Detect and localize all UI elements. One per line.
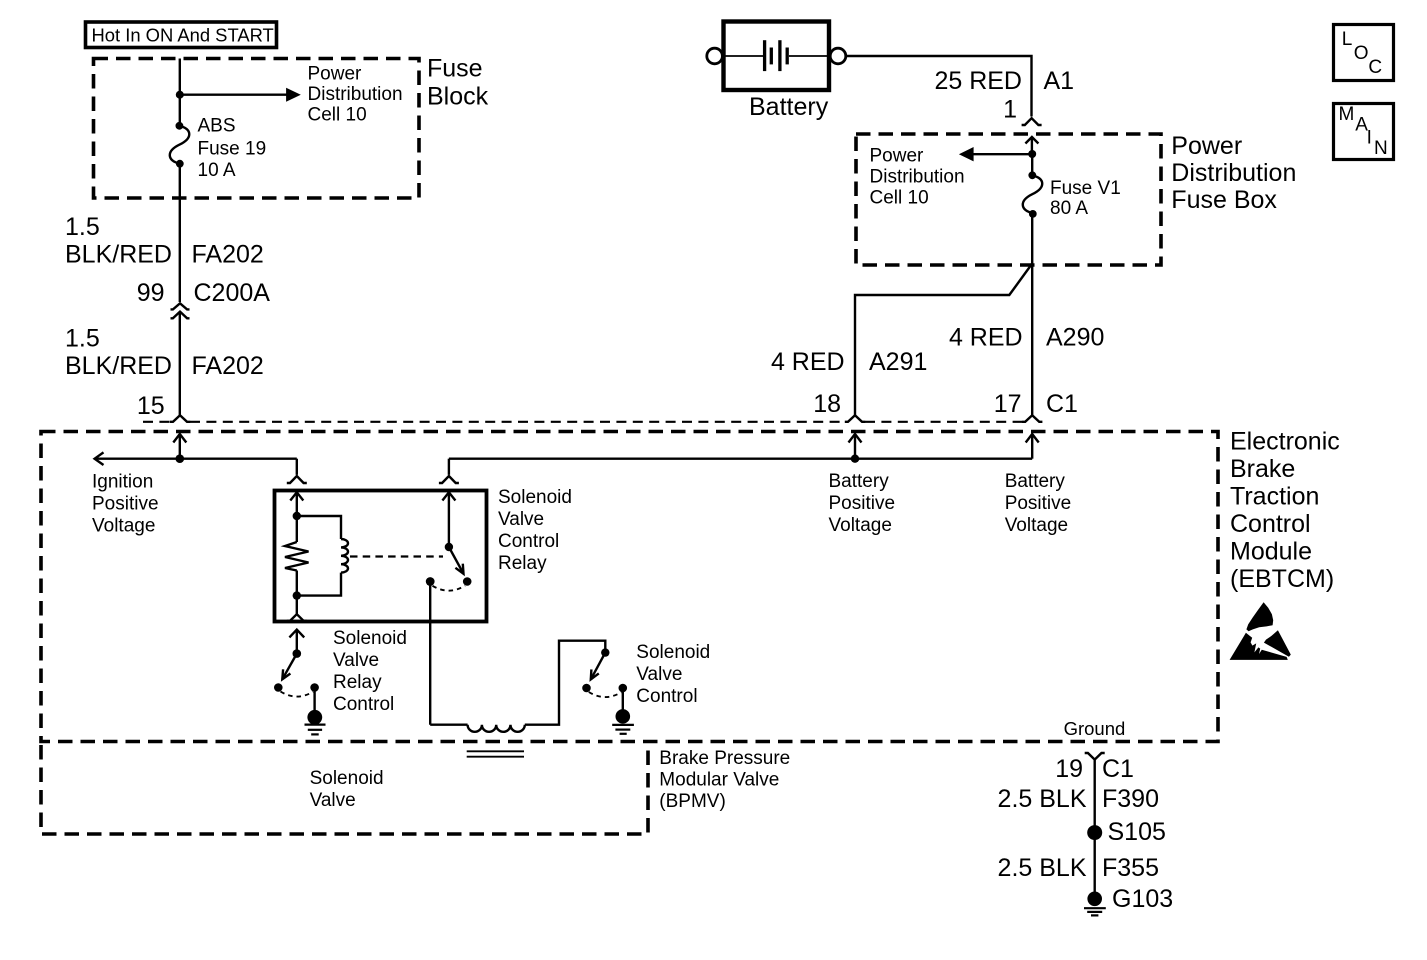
relay switch contacts — [426, 577, 435, 586]
svg-text:Electronic: Electronic — [1230, 428, 1340, 456]
label box "Hot In ON And START" — [86, 22, 277, 48]
svg-text:18: 18 — [813, 390, 841, 418]
svg-text:Fuse Box: Fuse Box — [1171, 186, 1277, 214]
svg-text:Solenoid: Solenoid — [333, 628, 407, 649]
wire junction to fuse V1 — [1031, 154, 1033, 175]
svg-text:Fuse 19: Fuse 19 — [198, 139, 267, 160]
wire pin 19 to G103 — [1093, 760, 1095, 893]
svg-text:Voltage: Voltage — [92, 516, 155, 537]
svg-text:2.5 BLK: 2.5 BLK — [998, 785, 1087, 813]
label Electronic Brake Traction Control Module (EBTCM) — [1230, 428, 1340, 594]
relay switch pivot — [445, 543, 453, 551]
svg-text:Control: Control — [1230, 510, 1311, 538]
svg-text:4 RED: 4 RED — [771, 348, 845, 376]
connector C200A symbol (double chevron), pin 99 — [171, 303, 190, 318]
solenoid valve plates (BPMV) — [467, 751, 524, 756]
wire relay coil to box bottom, chevron — [287, 596, 307, 621]
pin 17 entry arrow inside EBTCM — [1026, 434, 1039, 459]
resistor (relay) — [285, 516, 309, 596]
svg-text:Voltage: Voltage — [829, 515, 892, 536]
wire label 1.5 BLK/RED FA202 (upper) — [65, 213, 264, 269]
node junction pin 18 stem — [851, 455, 859, 463]
ground symbol (internal, SV control) — [612, 688, 634, 734]
svg-text:(BPMV): (BPMV) — [659, 791, 726, 812]
pin 19 connector chevron (ground output) — [1085, 753, 1105, 760]
svg-text:Positive: Positive — [829, 493, 896, 514]
wire C200A to pin 15 — [179, 312, 181, 416]
label Solenoid Valve (BPMV) — [310, 768, 384, 811]
svg-text:Fuse: Fuse — [427, 55, 483, 83]
relay node bottom — [293, 591, 301, 599]
svg-text:Valve: Valve — [636, 664, 682, 685]
fuse block dashed box — [94, 59, 420, 199]
svg-text:Hot In ON And START: Hot In ON And START — [92, 25, 274, 46]
label Power Distribution Fuse Box — [1171, 132, 1296, 214]
svg-text:Ground: Ground — [1064, 718, 1126, 739]
svg-text:Distribution: Distribution — [1171, 159, 1296, 187]
pin 17 connector chevron — [1022, 415, 1042, 422]
label Solenoid Valve Relay Control — [333, 628, 407, 715]
splice wire to pin 18 (A291 branch) — [855, 264, 1032, 416]
svg-text:(EBTCM): (EBTCM) — [1230, 565, 1334, 593]
svg-text:Brake Pressure: Brake Pressure — [659, 748, 790, 769]
svg-text:Ignition: Ignition — [92, 472, 153, 493]
svg-text:Relay: Relay — [498, 553, 547, 574]
svg-text:Control: Control — [498, 531, 559, 552]
svg-text:BLK/RED: BLK/RED — [65, 352, 172, 380]
label Brake Pressure Modular Valve (BPMV) — [659, 748, 790, 812]
relay coil entry arrow — [290, 492, 303, 516]
BPMV dashed box — [41, 745, 648, 834]
svg-text:80 A: 80 A — [1050, 198, 1088, 219]
switch SV relay control: pivot — [293, 649, 302, 658]
MAIN reference box — [1334, 104, 1394, 160]
pin 15 connector chevron — [170, 415, 190, 422]
svg-text:Power: Power — [308, 64, 363, 85]
pin 18 connector chevron — [845, 415, 865, 422]
svg-text:F390: F390 — [1102, 785, 1159, 813]
svg-text:Power: Power — [870, 146, 925, 167]
svg-text:F355: F355 — [1102, 854, 1159, 882]
svg-text:15: 15 — [137, 392, 165, 420]
label ABS Fuse 19 10 A — [198, 116, 267, 182]
svg-text:4 RED: 4 RED — [949, 324, 1023, 352]
battery bus wire (pins 18/17) — [449, 458, 1032, 460]
svg-text:A291: A291 — [869, 348, 927, 376]
svg-text:A290: A290 — [1046, 324, 1104, 352]
label Power Distribution Cell 10 (fuse block) — [308, 64, 403, 126]
svg-text:Distribution: Distribution — [308, 84, 403, 105]
svg-text:Solenoid: Solenoid — [310, 768, 384, 789]
svg-text:Power: Power — [1171, 132, 1242, 160]
wire below relay box to switch pivot, entry arrow — [289, 630, 304, 654]
relay switch entry arrow — [442, 492, 455, 547]
svg-text:Fuse V1: Fuse V1 — [1050, 178, 1121, 199]
wire down to relay coil input, chevron — [287, 459, 307, 483]
svg-text:C1: C1 — [1102, 755, 1134, 783]
svg-text:L: L — [1342, 29, 1353, 50]
svg-text:Battery: Battery — [749, 93, 829, 121]
wire label 1.5 BLK/RED FA202 (lower) — [65, 325, 264, 381]
label Battery Positive Voltage (pin 17) — [1005, 471, 1072, 536]
ground symbol (internal, SV relay control) — [305, 688, 326, 735]
switch SV control: travel arc — [589, 692, 622, 697]
LOC reference box — [1334, 25, 1394, 81]
power distribution fuse box dashed box — [856, 134, 1161, 265]
svg-text:10 A: 10 A — [198, 160, 236, 181]
EBTCM module dashed box — [41, 432, 1218, 742]
svg-text:Valve: Valve — [310, 790, 356, 811]
svg-text:C: C — [1368, 57, 1382, 78]
svg-text:2.5 BLK: 2.5 BLK — [998, 854, 1087, 882]
svg-text:Battery: Battery — [829, 471, 890, 492]
splice S105 — [1087, 825, 1102, 840]
svg-text:G103: G103 — [1112, 885, 1173, 913]
switch SV relay control: contacts — [274, 683, 283, 692]
svg-text:Module: Module — [1230, 538, 1312, 566]
wire ignition bus with left arrow — [95, 452, 297, 465]
relay box (Solenoid Valve Control Relay) — [275, 491, 487, 622]
wire down to relay switch, chevron — [439, 459, 459, 483]
svg-text:Valve: Valve — [333, 650, 379, 671]
svg-text:BLK/RED: BLK/RED — [65, 241, 172, 269]
switch SV control: arm with arrowhead — [591, 653, 606, 680]
svg-text:Traction: Traction — [1230, 483, 1319, 511]
svg-text:A1: A1 — [1044, 67, 1075, 95]
wire battery to PDFB pin 1 — [846, 56, 1032, 117]
svg-text:1.5: 1.5 — [65, 213, 100, 241]
pin 1 connector chevron — [1022, 118, 1042, 125]
label Power Distribution Cell 10 (PDFB) — [870, 146, 965, 209]
svg-text:N: N — [1374, 138, 1388, 159]
wire relay output down to solenoid — [429, 582, 431, 725]
fuse F19 (ABS Fuse 19 10 A) — [170, 122, 189, 168]
wire arrow to Power Distribution Cell 10 (PDFB) — [959, 147, 1032, 161]
svg-text:Cell 10: Cell 10 — [308, 105, 367, 126]
label Solenoid Valve Control Relay — [498, 487, 572, 574]
relay switch travel arc — [433, 586, 466, 591]
svg-text:S105: S105 — [1108, 818, 1166, 846]
node junction in PDFB — [1028, 150, 1036, 158]
svg-text:Control: Control — [333, 694, 394, 715]
wire arrow to Power Distribution Cell 10 — [180, 88, 301, 102]
svg-text:Valve: Valve — [498, 509, 544, 530]
svg-text:Modular Valve: Modular Valve — [659, 770, 779, 791]
svg-text:Distribution: Distribution — [870, 167, 965, 188]
svg-text:Relay: Relay — [333, 672, 382, 693]
svg-text:25 RED: 25 RED — [934, 67, 1022, 95]
svg-text:O: O — [1354, 43, 1369, 64]
wire fuse block to connector C200A — [179, 164, 181, 302]
svg-text:Brake: Brake — [1230, 455, 1295, 483]
node junction on ignition bus — [176, 454, 185, 463]
ESD sensitive device symbol — [1230, 602, 1291, 660]
svg-text:ABS: ABS — [198, 116, 236, 137]
svg-text:FA202: FA202 — [192, 241, 264, 269]
switch SV relay control: travel arc — [281, 692, 314, 697]
wire from Hot feed down into fuse block — [179, 59, 181, 128]
label Battery Positive Voltage (pin 18) — [829, 471, 896, 536]
svg-text:I: I — [1367, 128, 1372, 149]
svg-text:1.5: 1.5 — [65, 325, 100, 353]
pin 18 entry arrow inside EBTCM — [849, 434, 862, 459]
svg-text:Solenoid: Solenoid — [498, 487, 572, 508]
label Fuse V1 80 A — [1050, 178, 1121, 219]
svg-text:Block: Block — [427, 83, 489, 111]
battery — [707, 22, 846, 91]
main wire fuse V1 down to pin 17 — [1031, 214, 1033, 415]
pin 1 entry arrow inside PDFB — [1025, 137, 1038, 154]
svg-text:M: M — [1339, 104, 1355, 125]
svg-text:C1: C1 — [1046, 390, 1078, 418]
svg-text:Positive: Positive — [1005, 493, 1072, 514]
svg-text:Control: Control — [636, 686, 697, 707]
node junction in fuse block — [176, 91, 184, 99]
svg-text:Battery: Battery — [1005, 471, 1066, 492]
svg-text:17: 17 — [994, 390, 1022, 418]
relay node top — [293, 512, 301, 520]
switch SV control: contacts — [582, 684, 591, 693]
switch SV relay control: arm with arrowhead — [282, 654, 297, 680]
svg-text:1: 1 — [1003, 96, 1017, 124]
label Ignition Positive Voltage — [92, 472, 159, 537]
solenoid inductor wire and coil — [430, 641, 605, 732]
relay coil (inductor) — [297, 516, 348, 596]
label Solenoid Valve Control — [636, 642, 710, 707]
svg-text:C200A: C200A — [194, 279, 271, 307]
fuse V1 (80 A) — [1023, 171, 1042, 217]
pin 15 entry arrow inside EBTCM — [173, 434, 186, 459]
svg-text:99: 99 — [137, 279, 165, 307]
connector C1 fine dashed line — [143, 421, 1022, 423]
switch SV control: pivot — [601, 648, 609, 656]
svg-text:Voltage: Voltage — [1005, 515, 1068, 536]
ground G103 — [1084, 892, 1106, 916]
svg-text:Cell 10: Cell 10 — [870, 187, 929, 208]
svg-text:Positive: Positive — [92, 494, 159, 515]
svg-text:FA202: FA202 — [192, 352, 264, 380]
svg-text:Solenoid: Solenoid — [636, 642, 710, 663]
dashed mechanical link coil to switch — [350, 555, 443, 557]
relay switch arm with arrowhead — [449, 547, 464, 574]
svg-text:19: 19 — [1055, 755, 1083, 783]
